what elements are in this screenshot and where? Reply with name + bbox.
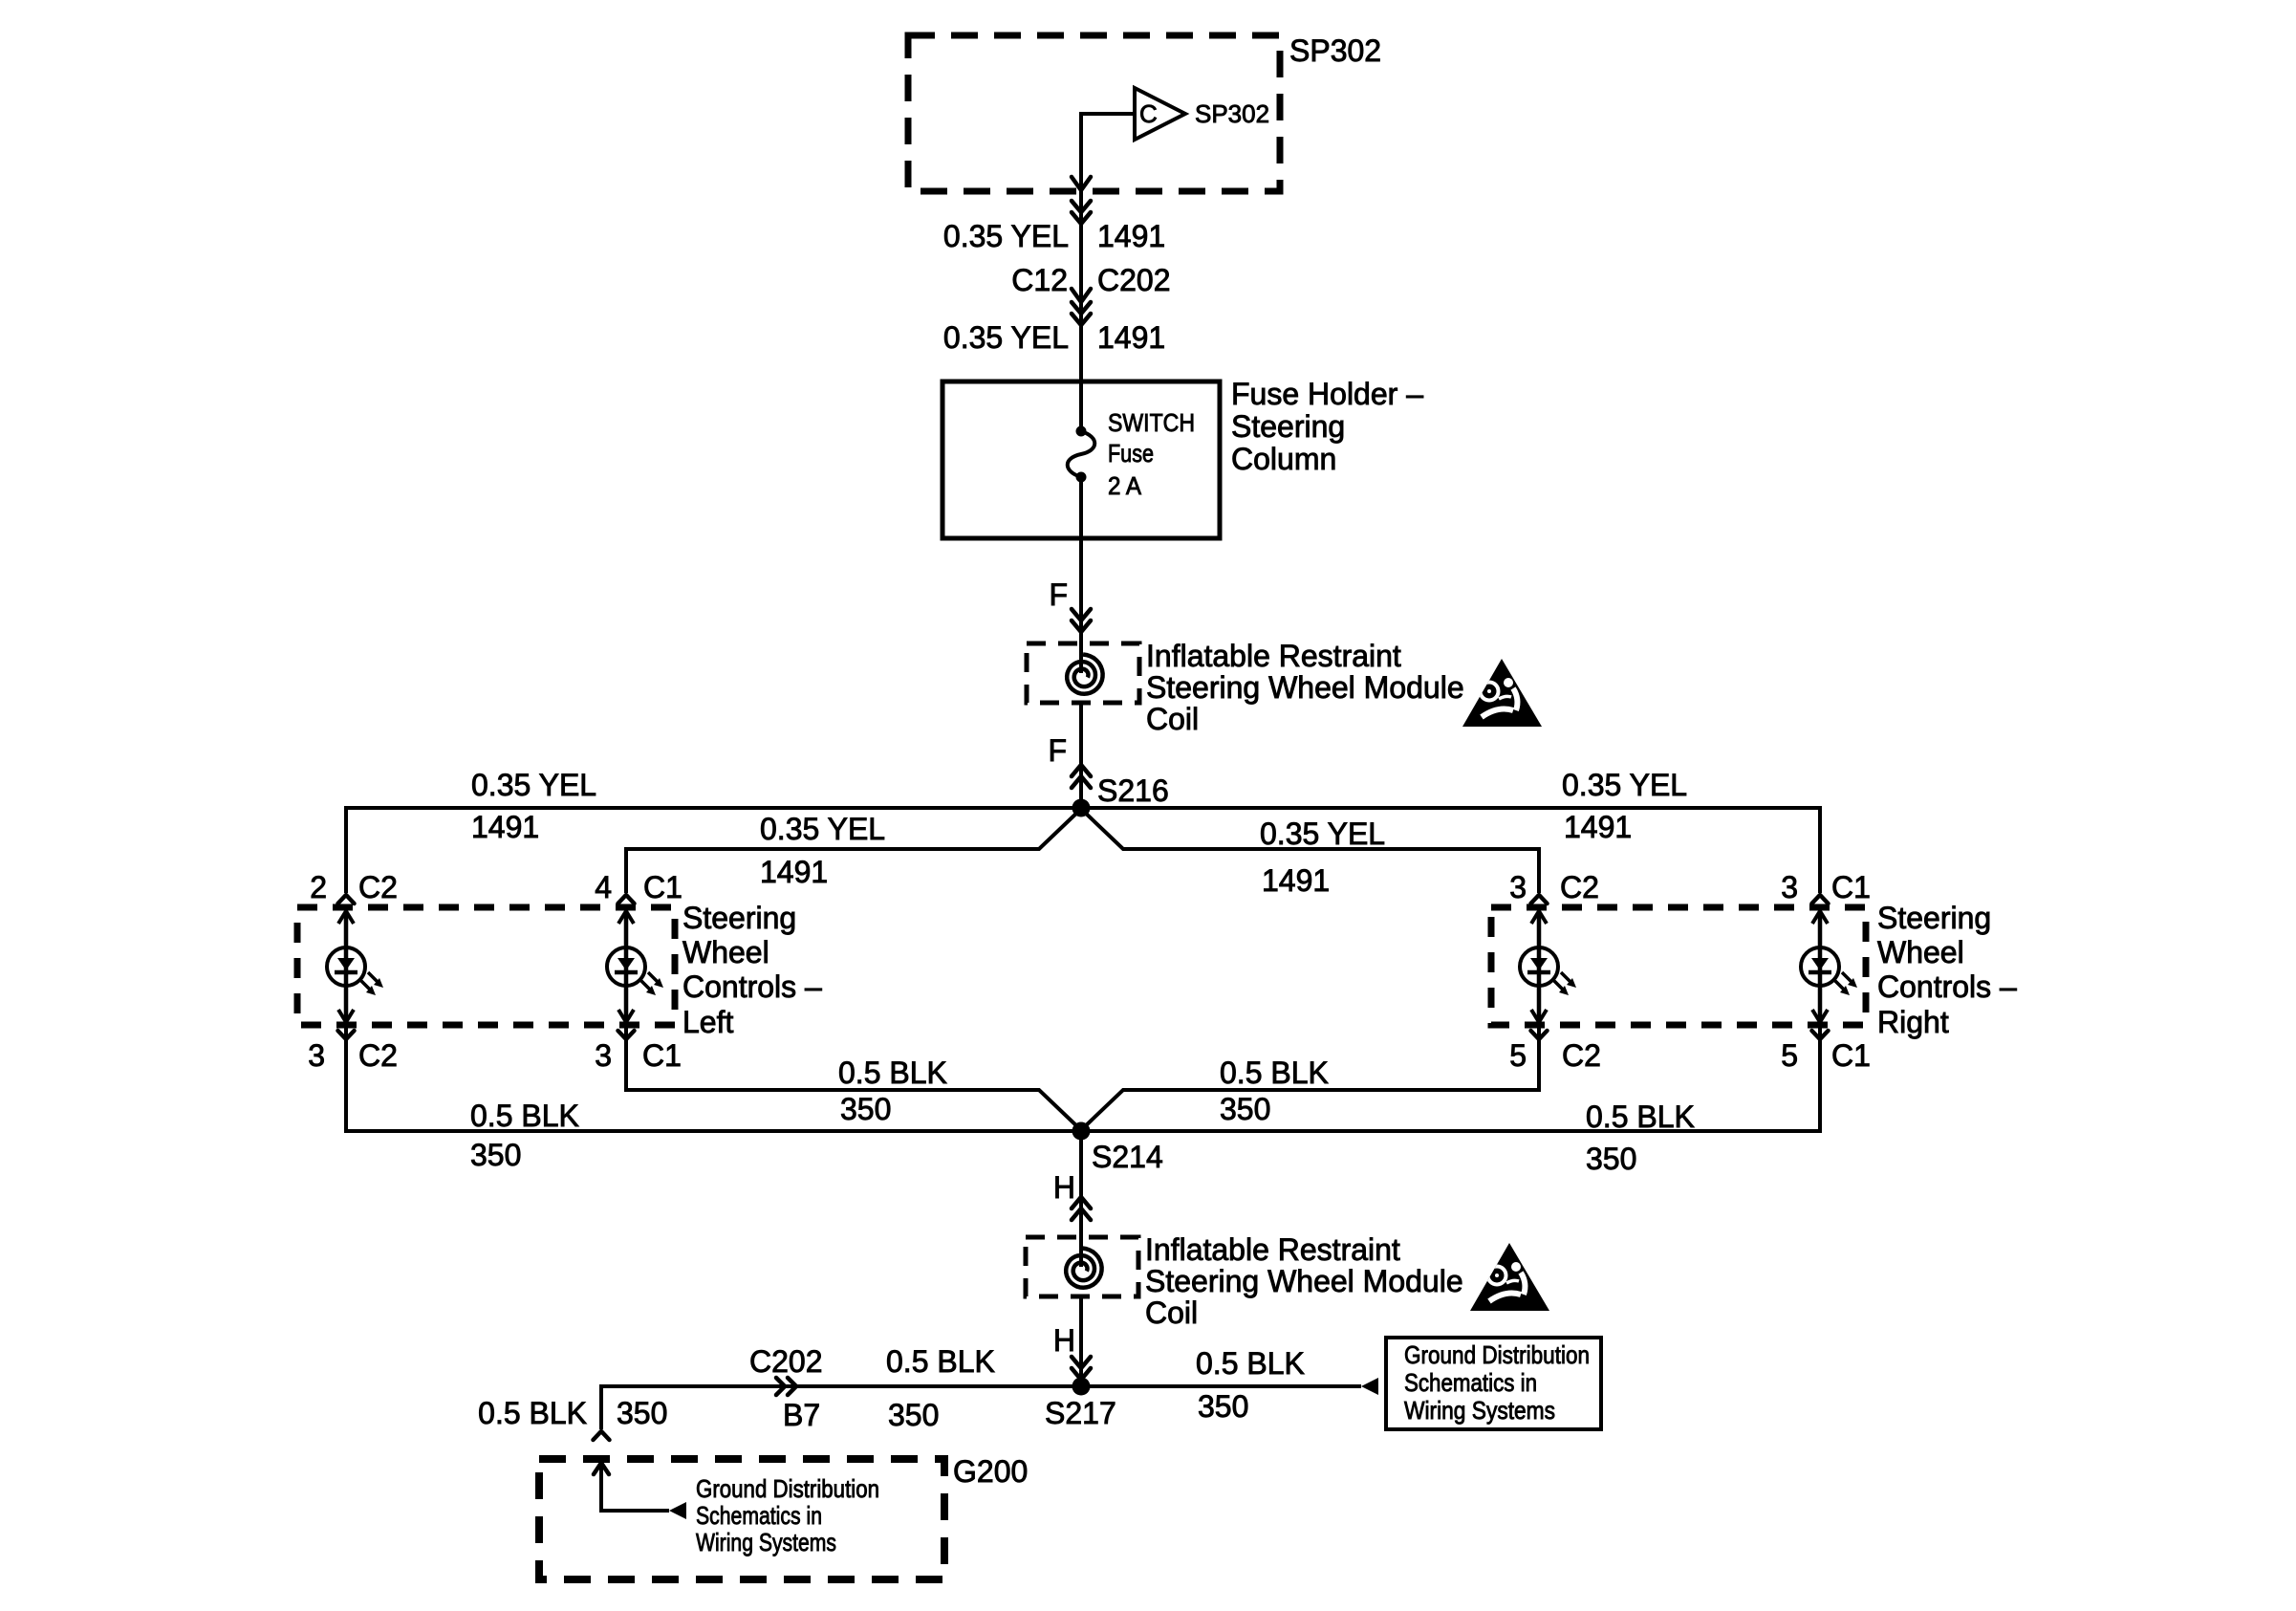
fuse holder box [942, 381, 1220, 538]
svg-text:0.35 YEL: 0.35 YEL [1562, 768, 1687, 802]
svg-text:350: 350 [840, 1092, 891, 1126]
svg-text:2: 2 [310, 870, 327, 904]
inner feed bus right [1081, 809, 1539, 893]
steering wheel controls right (dashed box) [1491, 907, 1866, 1025]
svg-text:Steering Wheel Module: Steering Wheel Module [1145, 1264, 1463, 1298]
wire F [1079, 538, 1083, 673]
svg-text:0.5 BLK: 0.5 BLK [478, 1396, 587, 1430]
svg-text:H: H [1053, 1170, 1075, 1205]
ground G200 (dashed box) [539, 1459, 944, 1579]
wire H to S217 [1079, 1295, 1083, 1386]
svg-text:SP302: SP302 [1289, 33, 1381, 68]
svg-text:3: 3 [595, 1038, 612, 1073]
svg-text:0.35 YEL: 0.35 YEL [471, 768, 596, 802]
svg-text:350: 350 [617, 1396, 667, 1430]
svg-text:350: 350 [888, 1398, 939, 1432]
SIR coil 2 (dashed box) [1026, 1237, 1138, 1296]
pin 2 C2 (left outer top) [310, 870, 398, 904]
svg-text:1491: 1491 [471, 810, 539, 844]
svg-text:C1: C1 [643, 870, 682, 904]
inner feed bus left [626, 809, 1081, 893]
wire 0.35 YEL 1491 (upper) [943, 219, 1165, 253]
svg-text:F: F [1049, 577, 1068, 612]
svg-text:C2: C2 [1562, 1038, 1601, 1073]
svg-text:C2: C2 [358, 870, 398, 904]
label 0.5 BLK 350 (to G200) [478, 1396, 667, 1430]
svg-text:0.35 YEL: 0.35 YEL [1260, 816, 1385, 851]
svg-text:C2: C2 [1560, 870, 1599, 904]
label 0.5 BLK 350 outer left [470, 1099, 579, 1172]
svg-text:1491: 1491 [1097, 320, 1165, 355]
svg-text:350: 350 [470, 1138, 521, 1172]
svg-text:S216: S216 [1097, 773, 1169, 808]
svg-text:0.5 BLK: 0.5 BLK [838, 1056, 947, 1090]
svg-text:5: 5 [1781, 1038, 1798, 1073]
connector C202 B7 (in-line chevrons) [749, 1344, 823, 1432]
svg-text:Right: Right [1877, 1005, 1949, 1039]
label Inflatable Restraint Steering Wheel Module Coil (1) [1146, 639, 1464, 736]
svg-text:Schematics in: Schematics in [1404, 1368, 1537, 1397]
svg-text:C202: C202 [749, 1344, 823, 1379]
SIR coil 1 (dashed box) [1027, 643, 1139, 703]
wire F to S216 [1079, 701, 1083, 808]
svg-text:Steering: Steering [1877, 901, 1991, 935]
wire H to coil 2 [1079, 1131, 1083, 1267]
SIR warning triangle 1 [1462, 659, 1542, 727]
label Steering Wheel Controls - Right [1877, 901, 2017, 1039]
svg-text:Wiring Systems: Wiring Systems [696, 1528, 836, 1557]
svg-text:0.5 BLK: 0.5 BLK [1586, 1099, 1695, 1134]
pin 3 C2 (left outer bottom) [308, 1031, 398, 1073]
label Ground Distribution Schematics in Wiring Systems (G200) [696, 1474, 879, 1557]
wire [1079, 191, 1083, 381]
label 0.5 BLK 350 (S217 to ground dist) [1196, 1346, 1305, 1424]
svg-text:1491: 1491 [1564, 810, 1632, 844]
svg-text:350: 350 [1220, 1092, 1270, 1126]
connector C12 / C202 [1011, 263, 1170, 325]
svg-text:3: 3 [308, 1038, 325, 1073]
pin 3 C1 (right outer top) [1781, 870, 1871, 904]
svg-text:Controls –: Controls – [682, 969, 822, 1004]
wire 0.35 YEL 1491 (lower) [943, 320, 1165, 355]
svg-text:G200: G200 [953, 1454, 1028, 1489]
label Steering Wheel Controls - Left [682, 901, 822, 1039]
SIR warning triangle 2 [1470, 1243, 1549, 1311]
G200 internal wire with arrow [594, 1463, 686, 1519]
svg-text:0.5 BLK: 0.5 BLK [470, 1099, 579, 1133]
svg-text:Ground Distribution: Ground Distribution [696, 1474, 879, 1503]
svg-text:C1: C1 [1831, 870, 1871, 904]
pin 5 C2 (right inner bottom) [1509, 1031, 1601, 1073]
svg-text:S214: S214 [1092, 1140, 1163, 1174]
svg-text:3: 3 [1781, 870, 1798, 904]
svg-text:350: 350 [1586, 1142, 1636, 1176]
svg-text:5: 5 [1509, 1038, 1527, 1073]
outer feed bus 0.35 YEL 1491 [346, 808, 1820, 893]
label 0.35 YEL 1491 inner left [760, 812, 885, 889]
off-page double chevron below SP302 [1072, 201, 1091, 224]
svg-text:Coil: Coil [1145, 1295, 1198, 1330]
LED lamp right-inner [1520, 911, 1576, 1022]
pin 3 C2 (right inner top) [1509, 870, 1599, 904]
svg-text:Wiring Systems: Wiring Systems [1404, 1396, 1555, 1425]
svg-text:Steering: Steering [1231, 409, 1345, 444]
svg-text:Left: Left [682, 1005, 733, 1039]
arrow into ground distribution box [1361, 1378, 1378, 1395]
label Inflatable Restraint Steering Wheel Module Coil (2) [1145, 1232, 1463, 1330]
connector chevron above G200 [594, 1431, 610, 1440]
label 0.35 YEL 1491 inner right [1260, 816, 1385, 898]
svg-text:1491: 1491 [1097, 219, 1165, 253]
outer return bus 0.5 BLK 350 [346, 1025, 1820, 1131]
label 0.5 BLK 350 inner left [838, 1056, 947, 1126]
svg-text:C202: C202 [1097, 263, 1171, 297]
inner return bus left [626, 1025, 1081, 1130]
svg-text:Ground Distribution: Ground Distribution [1404, 1340, 1590, 1369]
svg-text:0.5 BLK: 0.5 BLK [1196, 1346, 1305, 1381]
svg-text:Steering: Steering [682, 901, 796, 935]
svg-text:Coil: Coil [1146, 702, 1199, 736]
svg-text:1491: 1491 [1262, 863, 1330, 898]
svg-text:C2: C2 [358, 1038, 398, 1073]
svg-text:Wheel: Wheel [1877, 935, 1964, 969]
pin 3 C1 (left inner bottom) [595, 1031, 682, 1073]
svg-text:350: 350 [1198, 1389, 1248, 1424]
svg-text:1491: 1491 [760, 855, 828, 889]
svg-text:SWITCH: SWITCH [1108, 408, 1195, 437]
connector triangle C SP302 [1135, 88, 1269, 140]
inner return bus right [1081, 1026, 1539, 1130]
svg-text:H: H [1053, 1323, 1075, 1358]
splice S217 [1045, 1378, 1116, 1431]
svg-text:SP302: SP302 [1195, 99, 1269, 128]
ground bus wire [601, 1386, 1361, 1429]
svg-text:Fuse: Fuse [1108, 439, 1154, 468]
splice S214 [1072, 1122, 1163, 1175]
svg-text:0.5 BLK: 0.5 BLK [886, 1344, 995, 1379]
svg-text:Schematics in: Schematics in [696, 1501, 822, 1530]
label 0.5 BLK 350 outer right [1586, 1099, 1695, 1176]
splice pack SP302 (dashed box) [908, 35, 1280, 191]
LED lamp right-outer [1801, 911, 1857, 1022]
pin 5 C1 (right outer bottom) [1781, 1031, 1871, 1073]
svg-text:4: 4 [595, 870, 612, 904]
svg-text:Fuse Holder –: Fuse Holder – [1231, 377, 1423, 411]
svg-text:3: 3 [1509, 870, 1527, 904]
svg-text:0.35 YEL: 0.35 YEL [943, 219, 1069, 253]
label Fuse Holder - Steering Column [1231, 377, 1423, 476]
svg-text:0.35 YEL: 0.35 YEL [760, 812, 885, 846]
svg-text:Inflatable Restraint: Inflatable Restraint [1145, 1232, 1400, 1267]
label 0.5 BLK 350 (C202 to S217) [886, 1344, 995, 1432]
wire from splice to connector triangle [1081, 114, 1135, 191]
svg-text:S217: S217 [1045, 1396, 1116, 1430]
svg-text:2 A: 2 A [1108, 471, 1142, 500]
switch fuse 2A symbol [1068, 381, 1195, 538]
svg-text:0.5 BLK: 0.5 BLK [1220, 1056, 1329, 1090]
ground distribution reference box [1386, 1338, 1601, 1429]
splice S216 [1072, 773, 1169, 817]
svg-text:C1: C1 [1831, 1038, 1871, 1073]
label 0.35 YEL 1491 outer left [471, 768, 596, 844]
svg-text:C: C [1139, 99, 1158, 128]
label 0.35 YEL 1491 outer right [1562, 768, 1687, 844]
LED lamp left-inner [607, 911, 663, 1022]
pin 4 C1 (left inner top) [595, 870, 682, 904]
svg-text:Wheel: Wheel [682, 935, 769, 969]
svg-text:B7: B7 [783, 1398, 820, 1432]
svg-text:0.35 YEL: 0.35 YEL [943, 320, 1069, 355]
LED lamp left-outer [327, 911, 383, 1022]
svg-text:Inflatable Restraint: Inflatable Restraint [1146, 639, 1401, 673]
label 0.5 BLK 350 inner right [1220, 1056, 1329, 1126]
svg-text:Column: Column [1231, 442, 1336, 476]
svg-text:C12: C12 [1011, 263, 1068, 297]
arrowhead at SP302 box exit [1072, 177, 1091, 190]
svg-text:Controls –: Controls – [1877, 969, 2017, 1004]
svg-text:F: F [1048, 733, 1067, 768]
steering wheel controls left (dashed box) [297, 907, 675, 1025]
svg-text:Steering Wheel Module: Steering Wheel Module [1146, 670, 1464, 705]
svg-text:C1: C1 [642, 1038, 682, 1073]
